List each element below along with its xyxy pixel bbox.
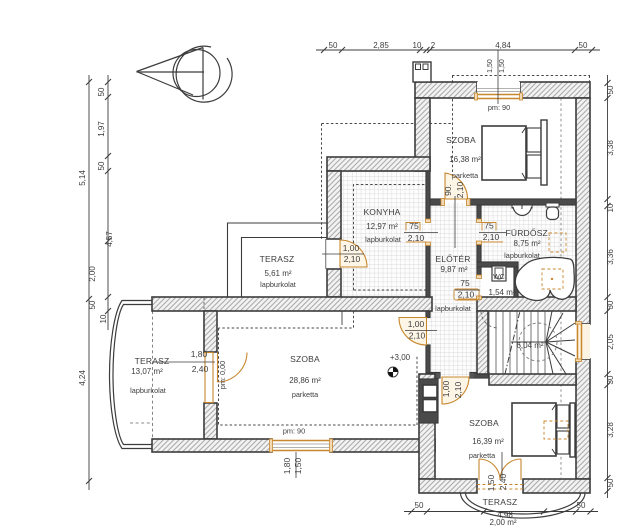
stair direction line — [511, 341, 546, 343]
north arrow compass — [173, 50, 220, 97]
wall: wc west wall stub — [477, 267, 481, 276]
svg-text:50: 50 — [97, 87, 106, 96]
wall: living room south wall west — [152, 439, 272, 452]
wall: hall/bathroom north wall — [467, 199, 576, 205]
dashed line inside bedroom right — [560, 98, 562, 478]
svg-text:1,50: 1,50 — [486, 474, 496, 491]
svg-text:50: 50 — [88, 300, 97, 309]
wall: bottom wall east of door — [523, 479, 590, 493]
svg-text:75: 75 — [460, 278, 470, 288]
svg-text:8,75 m²: 8,75 m² — [513, 239, 540, 248]
svg-text:2: 2 — [431, 41, 436, 50]
dashed line outside right wall bottom — [587, 385, 589, 493]
svg-text:6,04 m²: 6,04 m² — [516, 341, 543, 350]
svg-text:SZOBA: SZOBA — [469, 418, 499, 428]
svg-text:4,57: 4,57 — [105, 231, 114, 247]
wall: wc east wall — [514, 267, 518, 297]
door: living room-hall (1,00) — [399, 318, 427, 346]
wall: bathroom west wall upper — [477, 205, 481, 221]
svg-text:4,24: 4,24 — [78, 370, 87, 386]
svg-text:TERASZ: TERASZ — [135, 356, 170, 366]
dimension line right — [607, 75, 609, 498]
window: living room south wall — [272, 439, 330, 452]
svg-text:2,10: 2,10 — [455, 181, 465, 198]
stairs cut line — [505, 311, 520, 374]
svg-text:3,36: 3,36 — [606, 249, 615, 265]
bed bedroom2 — [512, 403, 556, 456]
window: top wall bedroom1 — [477, 82, 520, 98]
svg-text:parketta: parketta — [292, 390, 319, 399]
kitchen tiled floor — [341, 171, 426, 297]
door: bedroom2 from hall (1,00) — [436, 373, 440, 378]
bathroom orange dashed radiator — [549, 233, 566, 252]
svg-text:1,50: 1,50 — [487, 59, 494, 73]
svg-text:2,85: 2,85 — [373, 41, 389, 50]
svg-text:1,80: 1,80 — [282, 457, 292, 474]
svg-text:1,00: 1,00 — [343, 243, 360, 253]
svg-text:1,50: 1,50 — [293, 457, 303, 474]
dashed rect in kitchen — [354, 185, 427, 291]
wall: terrace divider lower — [204, 403, 217, 439]
svg-text:1,00: 1,00 — [408, 319, 425, 329]
svg-text:30: 30 — [606, 300, 615, 309]
hall tiled floor — [428, 203, 479, 376]
bathroom toilet — [546, 203, 559, 207]
svg-text:13,07 m²: 13,07 m² — [131, 367, 163, 376]
svg-text:1,54 m²: 1,54 m² — [488, 288, 515, 297]
wc fixture — [492, 266, 506, 281]
wall: terrace divider upper — [204, 311, 217, 352]
bed bedroom1 — [482, 126, 526, 180]
window: right wall stairs — [576, 324, 590, 359]
svg-text:1,97: 1,97 — [97, 121, 106, 137]
terrace 5.61 railing outer — [228, 223, 328, 297]
svg-text:2,40: 2,40 — [498, 473, 508, 490]
svg-text:lapburkolat: lapburkolat — [130, 386, 166, 395]
door: bedroom2 double door to terrace — [479, 459, 521, 480]
chimney block above bedroom1 west wall — [413, 62, 431, 82]
svg-text:75: 75 — [484, 221, 494, 231]
svg-text:KONYHA: KONYHA — [363, 207, 400, 217]
svg-text:2,10: 2,10 — [458, 290, 475, 300]
svg-text:SZOBA: SZOBA — [290, 354, 320, 364]
svg-text:lapburkolat: lapburkolat — [435, 304, 471, 313]
door: wc (75) — [477, 275, 482, 279]
svg-text:5,61 m²: 5,61 m² — [264, 269, 291, 278]
dimension line top — [316, 49, 600, 51]
svg-text:10: 10 — [413, 41, 422, 50]
svg-text:pm: 0,00: pm: 0,00 — [218, 361, 227, 389]
dashed line terrace left — [152, 311, 154, 439]
bottom terrace semicircle outer — [461, 493, 586, 518]
wall: living-hall wall upper stub — [426, 311, 430, 318]
wall: stairs west wall — [477, 311, 488, 374]
svg-text:50: 50 — [415, 501, 424, 510]
svg-text:TERASZ: TERASZ — [483, 497, 518, 507]
svg-text:90.: 90. — [443, 184, 453, 196]
dashed roof outline top — [452, 75, 590, 77]
door: bedroom1 from hall (90) — [441, 199, 445, 206]
svg-text:10: 10 — [606, 203, 615, 212]
svg-text:5,14: 5,14 — [78, 170, 87, 186]
wall: kitchen west wall upper — [327, 171, 341, 239]
svg-text:1,50: 1,50 — [499, 59, 506, 73]
svg-text:parketta: parketta — [469, 451, 496, 460]
svg-text:SZOBA: SZOBA — [446, 135, 476, 145]
wall: bedroom1 west wall — [415, 98, 430, 171]
door: bathroom (75) — [477, 219, 482, 223]
svg-text:ELŐTÉR: ELŐTÉR — [435, 254, 470, 264]
svg-text:2,00 m²: 2,00 m² — [489, 518, 516, 526]
dashed rect in living room — [219, 311, 418, 425]
svg-text:pm: 90: pm: 90 — [283, 427, 305, 436]
svg-text:16,38 m²: 16,38 m² — [449, 155, 481, 164]
svg-text:3,28: 3,28 — [606, 422, 615, 438]
stairs walk line dashed arc — [519, 323, 557, 361]
wall: bathroom west wall mid — [477, 242, 481, 262]
svg-text:30: 30 — [606, 375, 615, 384]
svg-text:2,40: 2,40 — [192, 364, 209, 374]
wall: wc north wall — [477, 262, 518, 267]
dimension line bottom — [404, 511, 598, 513]
svg-text:50: 50 — [577, 501, 586, 510]
svg-text:2,10: 2,10 — [408, 233, 425, 243]
svg-text:10: 10 — [99, 314, 108, 323]
stairs winder fan — [546, 311, 575, 374]
wall: right exterior lower — [576, 359, 590, 479]
wall: living-hall wall lower — [426, 345, 430, 373]
svg-text:50: 50 — [606, 478, 615, 487]
svg-text:2,05: 2,05 — [606, 334, 615, 350]
svg-text:2,10: 2,10 — [409, 331, 426, 341]
bathroom tiled floor — [479, 204, 578, 299]
wall: kitchen north wall — [327, 157, 430, 171]
wall: living room south wall east — [330, 439, 435, 452]
wall: under-stairs south wall — [489, 374, 576, 385]
orange dashed square in tub — [542, 269, 563, 289]
wall: right exterior upper — [576, 98, 590, 324]
wall: hall south wall east stub — [470, 373, 489, 379]
wall: kitchen west wall lower — [327, 269, 341, 297]
terrace 13.07 curved west edge inner — [113, 305, 152, 445]
wc room white floor — [481, 267, 514, 298]
stairs treads — [488, 311, 490, 374]
orange dashed blanket on bed2 — [544, 421, 568, 439]
door: living room-terrace13.07 (1,80) — [205, 353, 213, 403]
dimension line left inner — [107, 75, 109, 330]
svg-text:WC: WC — [493, 274, 505, 281]
svg-text:50: 50 — [579, 41, 588, 50]
svg-text:3,38: 3,38 — [606, 140, 615, 156]
svg-text:1,80: 1,80 — [191, 349, 208, 359]
corner bathtub — [515, 257, 574, 300]
wall: kitchen east wall lower — [426, 243, 430, 297]
dimension line left outer — [88, 75, 90, 490]
svg-text:parketta: parketta — [452, 171, 479, 180]
svg-text:lapburkolat: lapburkolat — [260, 280, 296, 289]
svg-text:TERASZ: TERASZ — [260, 254, 295, 264]
wall: kitchen east wall upper — [426, 171, 430, 221]
svg-text:16,39 m²: 16,39 m² — [472, 437, 504, 446]
door: kitchen-hall (75) — [426, 219, 431, 223]
bottom terrace semicircle inner — [466, 493, 581, 514]
svg-text:1,00: 1,00 — [441, 380, 451, 397]
wall: top exterior left part — [415, 82, 477, 98]
bathroom sink — [512, 205, 532, 208]
svg-text:50: 50 — [97, 161, 106, 170]
svg-text:4,84: 4,84 — [495, 41, 511, 50]
svg-text:FÜRDŐSZ.: FÜRDŐSZ. — [505, 228, 550, 238]
svg-text:2,10: 2,10 — [453, 381, 463, 398]
wall: hall south wall west stub — [429, 373, 440, 379]
svg-text:+3,00: +3,00 — [390, 353, 411, 362]
svg-text:50: 50 — [329, 41, 338, 50]
wall: middle band west — [152, 297, 432, 311]
svg-text:12,97 m²: 12,97 m² — [366, 222, 398, 231]
dashed upper floor outline over kitchen — [322, 123, 453, 125]
door: kitchen-terrace5.61 (1,00) — [325, 239, 327, 269]
svg-text:2,00: 2,00 — [88, 266, 97, 282]
chimney block in bedroom2 west wall — [419, 379, 438, 423]
svg-text:2,10: 2,10 — [483, 232, 500, 242]
wall: top exterior right part — [520, 82, 590, 98]
svg-text:lapburkolat: lapburkolat — [365, 235, 401, 244]
wall junction dashed at terrace divider — [203, 298, 205, 312]
svg-text:9,87 m²: 9,87 m² — [440, 265, 467, 274]
svg-text:lapburkolat: lapburkolat — [504, 251, 540, 260]
terrace 5.61 railing inner — [242, 238, 328, 298]
svg-text:28,86 m²: 28,86 m² — [289, 376, 321, 385]
wall: middle band under bathroom — [477, 297, 576, 311]
svg-text:50: 50 — [606, 85, 615, 94]
wall: bedroom2 west wall — [419, 374, 435, 479]
wall: hall north wall left stub — [430, 199, 443, 205]
terrace 13.07 curved west edge outer — [110, 301, 153, 449]
svg-text:2,10: 2,10 — [344, 254, 361, 264]
wall: bottom wall west of door — [419, 479, 477, 493]
svg-text:pm: 90: pm: 90 — [488, 103, 510, 112]
